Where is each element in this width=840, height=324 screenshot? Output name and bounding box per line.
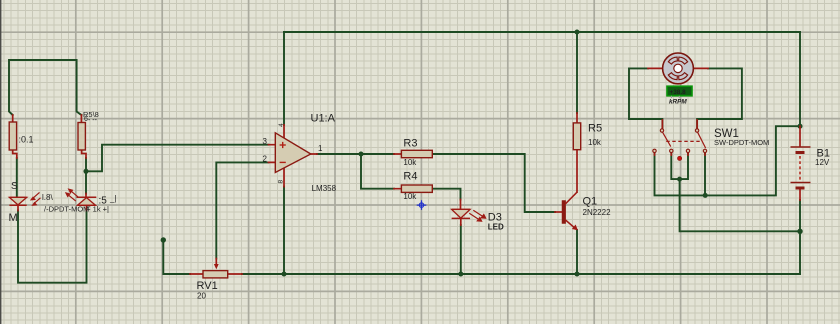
svg-text:SW-DPDT-MOM: SW-DPDT-MOM <box>714 138 769 147</box>
svg-text:R3: R3 <box>403 138 417 150</box>
svg-text:8: 8 <box>278 180 285 184</box>
svg-text:R4: R4 <box>403 171 417 183</box>
svg-text:LM358: LM358 <box>312 184 337 193</box>
svg-text:10k: 10k <box>403 192 417 201</box>
svg-text:3: 3 <box>263 137 268 146</box>
svg-text:2: 2 <box>263 155 268 164</box>
svg-text:M: M <box>9 212 18 224</box>
svg-text:+38.8: +38.8 <box>670 89 687 96</box>
svg-text:_|: _| <box>109 194 117 203</box>
svg-text:10k: 10k <box>403 158 417 167</box>
svg-text:LED: LED <box>488 223 504 232</box>
svg-text:kRPM: kRPM <box>669 99 687 106</box>
svg-text:R5: R5 <box>588 123 602 135</box>
svg-text:12V: 12V <box>815 158 830 167</box>
svg-text:1: 1 <box>318 144 323 153</box>
svg-text:U1:A: U1:A <box>311 113 336 125</box>
svg-text:- --: - -- <box>88 117 98 124</box>
svg-text:l.8\: l.8\ <box>42 193 53 202</box>
svg-text:10k: 10k <box>588 138 602 147</box>
svg-text:S: S <box>11 181 18 192</box>
svg-text:Q1: Q1 <box>583 196 598 208</box>
svg-text:/-DPDT-MOM: /-DPDT-MOM <box>44 205 89 214</box>
svg-text:2N2222: 2N2222 <box>583 208 612 217</box>
svg-text:4: 4 <box>278 123 285 127</box>
svg-text:F 1k +|: F 1k +| <box>86 205 109 214</box>
svg-text::0.1: :0.1 <box>19 135 34 145</box>
svg-text:20: 20 <box>197 292 206 301</box>
svg-text:RV1: RV1 <box>197 280 218 292</box>
